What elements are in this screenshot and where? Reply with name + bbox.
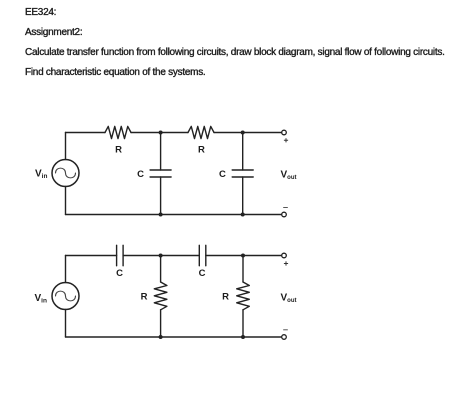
svg-text:R: R — [115, 145, 122, 156]
wire: top rail left segment circuit 2 — [66, 255, 117, 257]
wire: source bottom to bottom rail, circuit 1 — [65, 187, 67, 215]
source V1 (Vin, sine source) circuit 1 — [52, 160, 79, 187]
junction node top-2 circuit 1 — [241, 131, 245, 135]
label - terminal circuit 1 — [283, 207, 288, 209]
label + terminal circuit 2 — [284, 261, 288, 265]
svg-text:C: C — [219, 169, 226, 180]
svg-text:C: C — [199, 268, 206, 279]
output terminal - circuit 2 — [282, 335, 287, 340]
svg-text:Vout: Vout — [281, 169, 297, 181]
wire: source top to top rail, circuit 1 — [65, 133, 67, 160]
junction node bottom-2 circuit 2 — [241, 335, 245, 339]
capacitor C1 circuit 1 — [150, 133, 171, 215]
output terminal - circuit 1 — [282, 212, 287, 217]
junction node top-1 circuit 1 — [159, 131, 163, 135]
wire: top rail segment between C1 and C2, circuit 2 — [123, 255, 199, 257]
resistor R2 (shunt) circuit 2 — [237, 256, 250, 338]
resistor R1 circuit 1 — [105, 126, 131, 138]
line 2: assignment heading — [25, 27, 82, 38]
wire: top rail middle segment circuit 1 — [131, 132, 188, 134]
junction node top-1 circuit 2 — [159, 254, 163, 258]
svg-text:C: C — [137, 169, 144, 180]
junction node top-2 circuit 2 — [241, 254, 245, 258]
capacitor C1 (series) circuit 2 — [117, 245, 124, 265]
wire: bottom rail circuit 2 — [66, 336, 282, 338]
wire: top rail left segment circuit 1 — [66, 132, 106, 134]
svg-text:R: R — [198, 145, 205, 156]
capacitor C2 circuit 1 — [232, 133, 253, 215]
resistor R2 circuit 1 — [188, 126, 214, 138]
label - terminal circuit 2 — [283, 329, 288, 331]
label + terminal circuit 1 — [284, 138, 288, 142]
output terminal + circuit 1 — [282, 130, 287, 135]
output terminal + circuit 2 — [282, 253, 287, 258]
svg-text:R: R — [141, 292, 148, 303]
capacitor C2 (series) circuit 2 — [199, 245, 206, 265]
line 1: course heading — [25, 7, 56, 18]
wire: source top to top rail, circuit 2 — [65, 256, 67, 283]
svg-text:C: C — [116, 268, 123, 279]
svg-text:R: R — [222, 292, 229, 303]
wire: source bottom to bottom rail, circuit 2 — [65, 310, 67, 338]
junction node bottom-1 circuit 2 — [159, 335, 163, 339]
svg-text:Vin: Vin — [35, 169, 47, 181]
wire: top rail right segment circuit 1 — [214, 132, 281, 134]
line 3: instructions — [25, 47, 445, 58]
wire: top rail right segment circuit 2 — [206, 255, 282, 257]
line 4: instructions — [25, 67, 205, 78]
svg-text:Vout: Vout — [281, 292, 297, 304]
svg-text:Vin: Vin — [35, 293, 47, 305]
wire: bottom rail circuit 1 — [66, 214, 282, 216]
junction node bottom-1 circuit 1 — [159, 213, 163, 217]
source V2 (Vin, sine source) circuit 2 — [52, 283, 79, 310]
junction node bottom-2 circuit 1 — [241, 213, 245, 217]
resistor R1 (shunt) circuit 2 — [154, 256, 167, 338]
